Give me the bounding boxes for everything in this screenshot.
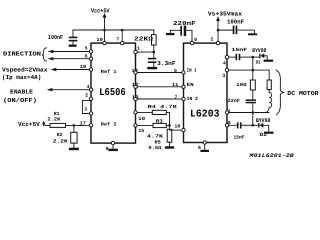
wire pin2 stub — [217, 30, 219, 43]
resistor R4 4.7K — [136, 104, 178, 114]
capacitor 220nF with ground — [166, 20, 196, 43]
svg-text:Vcc+5V: Vcc+5V — [91, 7, 110, 14]
svg-text:(Ip max=4A): (Ip max=4A) — [2, 74, 41, 81]
node sense R3 — [168, 124, 171, 127]
svg-text:D1: D1 — [256, 59, 261, 65]
svg-text:Vcc+5V: Vcc+5V — [18, 121, 40, 128]
wire OUT2 row — [227, 112, 269, 114]
wire L6203 pin6 gnd — [204, 143, 206, 150]
svg-text:BYV98: BYV98 — [252, 47, 267, 54]
svg-text:17: 17 — [80, 120, 87, 126]
wire OUT2 to boot2 — [252, 113, 254, 126]
ground below R5 — [165, 146, 174, 148]
svg-text:100nF: 100nF — [48, 34, 63, 41]
IC U1 L6506 box — [91, 43, 136, 143]
svg-text:2: 2 — [85, 92, 88, 98]
wire pin7 stub — [121, 30, 123, 43]
svg-text:7: 7 — [116, 36, 119, 42]
svg-text:Ref 2: Ref 2 — [101, 122, 117, 128]
svg-text:L6203: L6203 — [190, 108, 220, 120]
svg-text:Ref 1: Ref 1 — [101, 69, 117, 75]
resistor snubber 10 ohm — [236, 70, 255, 99]
resistor R3 4.7K — [136, 118, 170, 139]
pin terminal circles L6203 — [182, 41, 229, 144]
IC U2 L6203 box — [184, 43, 228, 142]
ground right of 100nF — [248, 33, 257, 35]
wire pin10 stub — [104, 30, 106, 43]
pin terminal circles L6506 — [89, 41, 137, 144]
motor resistance — [267, 70, 271, 92]
resistor R1 2.2K — [44, 111, 91, 127]
svg-text:9: 9 — [194, 37, 197, 43]
ground right of D2 — [264, 132, 274, 134]
ground below 3.3nF — [147, 67, 157, 69]
wire EN row (pin12 to pin11) — [136, 86, 184, 88]
wire OUT1 row — [227, 69, 269, 71]
svg-text:100nF: 100nF — [227, 18, 244, 25]
svg-text:6: 6 — [85, 53, 88, 59]
wire ENABLE to pin4 — [47, 88, 91, 91]
power Vcc+5V lower left — [18, 121, 46, 128]
wire direction pin5 — [48, 50, 91, 53]
svg-text:10: 10 — [174, 123, 180, 129]
wire IN2 row (pin13 to pin7) — [136, 98, 184, 100]
node OUT1 snubber — [252, 69, 255, 72]
resistor 22K oscillator — [134, 30, 156, 52]
node OUT2 snubber — [252, 111, 255, 114]
brace DC motor — [276, 70, 284, 115]
svg-text:Vspeed=2Vmax: Vspeed=2Vmax — [2, 67, 48, 74]
svg-text:R4 4.7K: R4 4.7K — [148, 104, 177, 110]
power Vcc+5V top — [91, 7, 110, 30]
svg-text:22KΩ: 22KΩ — [134, 35, 154, 42]
svg-text:R1: R1 — [54, 111, 60, 117]
wire jumper pin2 to pin3 — [82, 100, 91, 113]
ground below 100nF — [69, 45, 77, 47]
wire Vcc rail — [73, 29, 154, 31]
svg-text:Vs+35Vmax: Vs+35Vmax — [208, 11, 242, 18]
brace direction — [42, 48, 47, 61]
svg-text:BYV98: BYV98 — [256, 117, 271, 124]
capacitor 100nF (right decoupling) — [227, 18, 254, 34]
node Vcc-pin7 — [121, 29, 124, 32]
node boot1 — [252, 56, 255, 59]
wire sense vertical — [169, 112, 171, 129]
svg-text:5: 5 — [85, 46, 88, 52]
svg-text:R5: R5 — [155, 140, 161, 146]
svg-text:15: 15 — [138, 128, 144, 134]
svg-text:DIRECTION: DIRECTION — [3, 50, 41, 57]
ground below R2 — [69, 148, 79, 151]
svg-text:11: 11 — [172, 82, 178, 88]
wire IN1 row (pin14 to pin5) — [136, 72, 184, 74]
capacitor 3.3nF — [148, 52, 176, 67]
svg-text:ENABLE: ENABLE — [10, 88, 33, 95]
wire boot1 to OUT1 — [252, 57, 254, 70]
resistor R2 2.2K — [53, 125, 77, 147]
capacitor 100nF (left decoupling) — [48, 30, 77, 45]
node R1 R2 junction — [73, 124, 76, 127]
node osc — [153, 51, 156, 54]
capacitor snubber 22nF — [228, 98, 256, 112]
ground below L6506 pin9 — [108, 149, 117, 151]
capacitor 15nF boot2 — [227, 122, 253, 140]
svg-text:IN 2: IN 2 — [187, 96, 199, 102]
svg-text:18: 18 — [80, 64, 87, 70]
capacitor 15nF boot1 — [227, 47, 253, 60]
wire Vspeed to pin18 — [51, 68, 91, 71]
svg-text:(ON/OFF): (ON/OFF) — [3, 97, 37, 104]
node boot2 — [252, 124, 255, 127]
svg-text:3: 3 — [222, 73, 225, 79]
svg-text:1: 1 — [137, 46, 140, 52]
svg-text:2.2K: 2.2K — [53, 139, 68, 145]
svg-text:6: 6 — [198, 145, 201, 151]
wire sense to L6203 pin10 — [170, 129, 184, 131]
diode D2 BYV98 — [253, 117, 271, 138]
node Vs rail — [217, 29, 220, 32]
power Vs+35Vmax — [208, 11, 242, 31]
svg-text:L6506: L6506 — [99, 87, 125, 99]
svg-text:22nF: 22nF — [228, 98, 241, 104]
svg-text:M91L6201-2B: M91L6201-2B — [248, 153, 294, 159]
resistor R5 0.5 ohm — [148, 129, 171, 151]
svg-text:9: 9 — [106, 146, 109, 152]
svg-text:5: 5 — [174, 68, 177, 74]
svg-text:4: 4 — [223, 60, 226, 66]
svg-text:2: 2 — [210, 37, 213, 43]
svg-text:3.3nF: 3.3nF — [157, 60, 176, 67]
diode D1 BYV98 — [252, 47, 267, 65]
svg-text:7: 7 — [175, 94, 178, 100]
svg-text:0.5Ω: 0.5Ω — [148, 145, 161, 151]
svg-text:10: 10 — [138, 116, 145, 122]
svg-text:2.2K: 2.2K — [47, 116, 60, 122]
svg-text:DC MOTOR: DC MOTOR — [287, 90, 319, 97]
svg-text:15nF: 15nF — [234, 134, 245, 140]
svg-text:EN: EN — [187, 82, 194, 88]
wire L6506 pin9 ground stub — [112, 143, 114, 149]
wire direction pin6 — [48, 57, 91, 60]
wire Vs rail to 100nF — [218, 29, 233, 31]
svg-text:IN 1: IN 1 — [187, 68, 197, 74]
svg-text:10Ω: 10Ω — [236, 82, 247, 88]
ground below L6203 pin6 — [200, 150, 209, 152]
svg-text:3: 3 — [84, 107, 87, 113]
svg-text:4.7K: 4.7K — [147, 133, 163, 139]
wire pin1 to osc node — [136, 51, 154, 53]
svg-text:10: 10 — [96, 37, 103, 43]
svg-text:15nF: 15nF — [231, 47, 247, 53]
ground right of D1 — [264, 60, 274, 62]
motor inductance coil — [266, 93, 272, 113]
node Vcc-pin10 — [103, 29, 106, 32]
svg-text:R2: R2 — [57, 132, 63, 138]
